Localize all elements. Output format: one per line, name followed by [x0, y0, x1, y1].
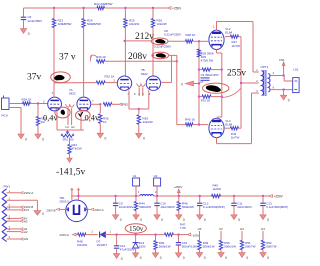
svg-text:0: 0 — [246, 256, 248, 260]
svg-text:0: 0 — [42, 137, 44, 141]
svg-text:1k/7W: 1k/7W — [232, 44, 241, 48]
svg-text:150v: 150v — [129, 225, 144, 233]
svg-text:VR2 500: VR2 500 — [63, 138, 74, 142]
svg-text:0: 0 — [161, 218, 163, 222]
svg-text:U1: U1 — [133, 174, 137, 178]
svg-text:1K: 1K — [103, 120, 107, 124]
svg-text:230V-A: 230V-A — [60, 233, 70, 237]
svg-text:0: 0 — [204, 218, 206, 222]
svg-text:0: 0 — [181, 83, 183, 87]
svg-text:37 v: 37 v — [59, 53, 76, 63]
svg-text:R22 22kB/5W: R22 22kB/5W — [94, 2, 113, 6]
svg-text:500k/1W: 500k/1W — [203, 244, 215, 248]
svg-text:255v: 255v — [227, 69, 246, 79]
svg-text:R34 1K: R34 1K — [22, 98, 32, 102]
svg-text:10uF/400V: 10uF/400V — [160, 205, 175, 209]
svg-text:0: 0 — [105, 137, 107, 141]
svg-text:500k/1W: 500k/1W — [224, 244, 236, 248]
svg-text:500k/2W: 500k/2W — [182, 205, 194, 209]
svg-text:0.22uF/250V: 0.22uF/250V — [164, 32, 181, 36]
svg-text:150V: 150V — [139, 244, 146, 248]
svg-text:0: 0 — [140, 218, 142, 222]
svg-text:0: 0 — [238, 218, 240, 222]
svg-text:0: 0 — [288, 99, 290, 103]
svg-text:6V: 6V — [219, 227, 223, 231]
svg-text:10k/2W: 10k/2W — [129, 22, 139, 26]
svg-text:-: - — [154, 187, 155, 191]
svg-text:0: 0 — [121, 257, 123, 261]
svg-text:0: 0 — [204, 256, 206, 260]
svg-text:0: 0 — [140, 256, 142, 260]
svg-text:+250V: +250V — [172, 7, 182, 11]
svg-text:LS1: LS1 — [293, 67, 299, 71]
svg-text:FN1: FN1 — [279, 58, 285, 62]
svg-text:R28 1K: R28 1K — [186, 33, 196, 37]
svg-text:0,4v: 0,4v — [85, 114, 100, 123]
svg-text:0: 0 — [25, 137, 27, 141]
svg-text:500uF/100V: 500uF/100V — [182, 244, 198, 248]
svg-text:0: 0 — [28, 32, 30, 36]
svg-text:22k/2W: 22k/2W — [143, 120, 153, 124]
svg-text:EL84: EL84 — [225, 122, 232, 126]
svg-text:1k/7W: 1k/7W — [231, 135, 240, 139]
svg-text:U2: U2 — [154, 174, 158, 178]
svg-text:0: 0 — [143, 137, 145, 141]
svg-text:-: - — [133, 187, 134, 191]
svg-text:H4: H4 — [261, 227, 265, 231]
svg-text:0: 0 — [120, 218, 122, 222]
svg-text:6V3: 6V3 — [24, 208, 30, 212]
svg-text:R40 1K: R40 1K — [185, 117, 195, 121]
svg-text:6922: 6922 — [69, 91, 76, 95]
svg-text:R31 1K: R31 1K — [201, 98, 210, 102]
svg-text:22uF/350V: 22uF/350V — [28, 19, 43, 23]
svg-text:H1: H1 — [66, 125, 70, 129]
svg-text:H2: H2 — [24, 219, 28, 223]
svg-text:0: 0 — [225, 256, 227, 260]
svg-text:500/7W: 500/7W — [266, 244, 277, 248]
svg-text:H3: H3 — [198, 227, 202, 231]
svg-text:22uF/400V: 22uF/400V — [237, 205, 252, 209]
svg-text:47k/2W: 47k/2W — [72, 147, 82, 151]
svg-text:EL84: EL84 — [225, 30, 232, 34]
svg-text:0.1uF/600(MKP): 0.1uF/600(MKP) — [266, 205, 288, 209]
svg-text:230V-B: 230V-B — [46, 209, 55, 213]
svg-text:RCA: RCA — [2, 114, 8, 118]
svg-text:500kB/5W: 500kB/5W — [87, 22, 101, 26]
svg-text:0: 0 — [160, 256, 162, 260]
svg-text:H3: H3 — [240, 227, 244, 231]
svg-text:1k/2W: 1k/2W — [213, 187, 222, 191]
svg-text:0.1uF/600(MKP): 0.1uF/600(MKP) — [203, 205, 225, 209]
svg-text:FB2: FB2 — [123, 103, 129, 107]
svg-text:+250V: +250V — [274, 195, 284, 199]
svg-text:500k/1W: 500k/1W — [159, 244, 171, 248]
svg-text:230V-A: 230V-A — [94, 208, 103, 212]
svg-text:LP: LP — [200, 80, 203, 84]
svg-text:500k/2W: 500k/2W — [139, 205, 151, 209]
svg-text:-141,5v: -141,5v — [56, 168, 86, 178]
svg-text:0: 0 — [42, 212, 44, 216]
svg-text:H2: H2 — [71, 125, 75, 129]
svg-text:7.5K: 7.5K — [180, 226, 186, 230]
svg-text:10k/2W: 10k/2W — [157, 22, 167, 26]
svg-text:230/6.3: 230/6.3 — [59, 199, 69, 203]
svg-text:-100V: -100V — [192, 233, 200, 237]
svg-text:GN: GN — [24, 237, 28, 241]
svg-text:10uF/400V: 10uF/400V — [119, 205, 134, 209]
svg-text:500/7W: 500/7W — [245, 244, 256, 248]
svg-text:230V-A: 230V-A — [24, 191, 34, 195]
svg-text:100kB/5W: 100kB/5W — [58, 22, 72, 26]
svg-text:10k/2W: 10k/2W — [77, 243, 87, 247]
svg-text:H2: H2 — [24, 230, 28, 234]
svg-text:0: 0 — [267, 256, 269, 260]
svg-text:0: 0 — [183, 256, 185, 260]
svg-text:0.22uF/250V: 0.22uF/250V — [154, 45, 171, 49]
svg-text:PW1: PW1 — [4, 185, 11, 189]
svg-text:6922: 6922 — [141, 72, 148, 76]
svg-text:212v: 212v — [135, 32, 154, 42]
svg-text:37v: 37v — [27, 73, 42, 83]
svg-text:C9 390uF/35V: C9 390uF/35V — [201, 73, 219, 77]
svg-text:0: 0 — [267, 218, 269, 222]
svg-text:OPT1: OPT1 — [261, 65, 269, 69]
svg-text:208v: 208v — [128, 52, 147, 62]
svg-text:+250V: +250V — [174, 185, 183, 189]
svg-text:470/0.5W: 470/0.5W — [201, 59, 214, 63]
svg-text:1N4007: 1N4007 — [97, 243, 108, 247]
svg-text:R30 1K: R30 1K — [96, 55, 106, 59]
